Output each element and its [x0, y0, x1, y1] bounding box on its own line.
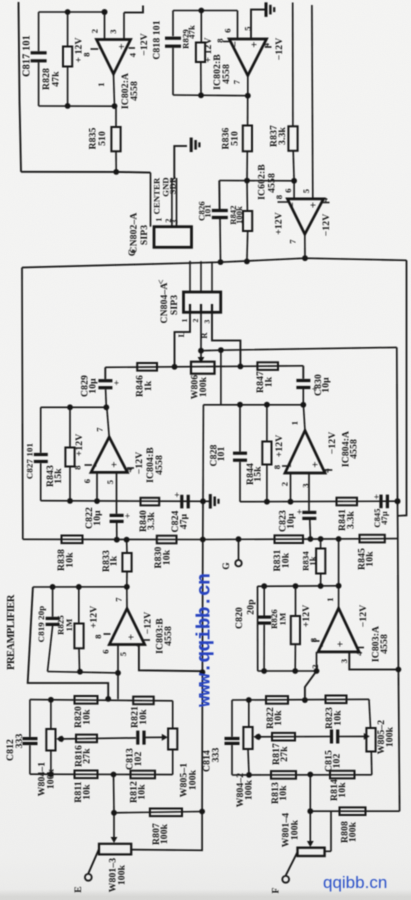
op-amp IC804:A	[285, 431, 325, 474]
node junction R/net-367	[238, 364, 244, 370]
wire CN802 pin2/pin3 leads to ground	[171, 178, 173, 227]
capacitor C815	[330, 730, 333, 744]
wire node net-172 (input to CN802 pin1)	[21, 171, 151, 174]
node junction wiper/net811	[307, 808, 313, 814]
node junction pin2/net-12	[102, 9, 108, 15]
potentiometer W801-3	[99, 844, 131, 855]
node junction R829/net-10	[198, 8, 204, 14]
svg-text:10μ: 10μ	[286, 513, 297, 529]
node junction pin5-fb/midrail	[200, 669, 206, 675]
svg-text:−12V: −12V	[327, 432, 338, 455]
potentiometer W801-3 wiper	[113, 813, 115, 838]
svg-text:1: 1	[96, 82, 106, 86]
wire IC803:B feedback top	[33, 586, 127, 588]
svg-text:+: +	[114, 378, 119, 388]
wire network top net right	[232, 698, 369, 701]
wire left rail of preamp box	[21, 268, 24, 540]
op-amp IC803:B	[109, 609, 144, 645]
resistor R838	[62, 536, 83, 544]
node junction midrail/net539	[200, 537, 206, 543]
svg-text:8: 8	[272, 465, 282, 469]
svg-text:10k: 10k	[273, 710, 284, 726]
svg-text:10k: 10k	[337, 782, 348, 798]
node junction W804-1/bottom	[48, 771, 54, 777]
resistor R823	[326, 696, 347, 704]
svg-text:1k: 1k	[308, 556, 318, 565]
wire net-812	[114, 812, 202, 813]
svg-text:10k: 10k	[137, 784, 148, 800]
svg-text:3: 3	[202, 319, 211, 323]
resistor R812	[131, 771, 156, 779]
svg-text:R: R	[200, 332, 209, 339]
svg-text:−: −	[91, 461, 103, 467]
svg-text:100k: 100k	[187, 769, 198, 790]
wire pin2 lead	[290, 473, 292, 502]
node junction R844/top	[264, 402, 270, 408]
svg-text:G: G	[222, 562, 232, 570]
svg-text:+: +	[109, 461, 121, 467]
svg-text:4: 4	[261, 42, 271, 47]
node junction C823/net539	[308, 536, 314, 542]
svg-text:510: 510	[97, 131, 108, 146]
potentiometer W805-2	[369, 699, 371, 728]
capacitor C817	[38, 12, 40, 51]
node junction pin2/bottom	[288, 499, 294, 505]
svg-text:C820: C820	[234, 607, 245, 629]
node junction boxdrop/top	[105, 696, 111, 702]
wire IC802:B output	[247, 76, 249, 96]
capacitor C845 (47u)	[379, 495, 382, 509]
resistor R840	[141, 498, 160, 506]
svg-text:7: 7	[232, 79, 242, 84]
node junction output/net-95	[245, 93, 251, 99]
svg-text:6: 6	[101, 649, 111, 653]
resistor R828	[67, 12, 69, 47]
svg-text:−12V: −12V	[321, 214, 332, 237]
wire pin6 lead IC602:B	[293, 181, 295, 199]
wire C815 to W805-2	[338, 735, 365, 737]
svg-text:C817 101: C817 101	[22, 35, 33, 77]
svg-text:3.3k: 3.3k	[346, 511, 357, 529]
node junction wiper/net-350	[198, 348, 204, 354]
node junction out803A/net539	[336, 536, 342, 542]
op-amp IC803:A	[318, 608, 359, 652]
wire IC804:A output	[303, 405, 305, 431]
resistor R847	[257, 362, 278, 370]
node junction W804-1/top	[48, 697, 54, 703]
wire IC804:B output	[107, 407, 109, 437]
pin 4 stub IC802:B	[265, 46, 272, 48]
svg-text:+12V: +12V	[274, 212, 285, 235]
node junction branch/G-net	[218, 347, 224, 353]
ground (CN802 GND)	[190, 138, 193, 153]
svg-text:5: 5	[118, 652, 128, 656]
potentiometer W804-1	[50, 700, 52, 729]
node junction wiper/net812	[111, 810, 117, 816]
wire mid net	[61, 738, 136, 739]
potentiometer W801-4	[298, 848, 325, 856]
svg-text:−: −	[94, 43, 106, 49]
svg-text:4558: 4558	[349, 439, 360, 459]
wire CN804 L lead	[175, 312, 191, 367]
pin 8 stub IC802:B	[223, 41, 231, 43]
svg-text:+12V: +12V	[89, 606, 100, 629]
svg-text:10k: 10k	[81, 784, 92, 800]
svg-text:−: −	[230, 41, 242, 47]
svg-text:1k: 1k	[143, 380, 154, 391]
wire pin3 lead with stub 3'	[123, 13, 125, 40]
svg-text:F: F	[272, 887, 282, 893]
svg-text:47k: 47k	[187, 25, 197, 39]
wire pin3 lead through C823	[308, 473, 310, 511]
wire net-12 top (IC802:A -input)	[39, 11, 106, 13]
svg-text:4558: 4558	[129, 81, 140, 101]
resistor R825	[78, 587, 80, 624]
svg-text:4558: 4558	[379, 634, 390, 654]
node junction C822/net539	[114, 537, 120, 543]
svg-text:101: 101	[203, 204, 213, 217]
svg-text:1: 1	[180, 318, 189, 322]
node junction C819/top	[50, 584, 56, 590]
wire IC804:A feedback top	[203, 404, 305, 406]
resistor R807	[150, 809, 182, 817]
wire IC802:A output	[114, 74, 115, 106]
svg-text:2: 2	[280, 482, 290, 486]
svg-text:10k: 10k	[161, 549, 172, 565]
pin 4 stub IC804:A	[325, 469, 332, 471]
node junction out/feedback-top	[336, 583, 342, 589]
svg-text:7: 7	[114, 597, 124, 602]
svg-text:+: +	[125, 511, 130, 521]
ground (mid)	[203, 500, 210, 502]
svg-text:C818 101: C818 101	[152, 20, 163, 59]
wire to E terminal	[88, 849, 99, 874]
svg-text:10μ: 10μ	[87, 378, 98, 394]
potentiometer W801-4 wiper	[309, 811, 311, 841]
ground (IC802:B +input)	[265, 2, 268, 17]
wire net-10 (IC802:B -input)	[173, 10, 238, 12]
wire G long net	[201, 347, 397, 350]
svg-text:5: 5	[105, 480, 115, 484]
svg-text:1: 1	[155, 217, 164, 221]
wire pin5 lead to mid rail	[139, 645, 203, 672]
svg-text:−12V: −12V	[358, 605, 369, 628]
svg-text:−12V: −12V	[139, 33, 150, 56]
node junction W804-2/bottom	[246, 772, 252, 778]
svg-text:102: 102	[332, 754, 343, 769]
svg-text:C827 101: C827 101	[25, 443, 35, 479]
capacitor C830 (10u)	[302, 366, 304, 379]
svg-text:SIP3: SIP3	[169, 295, 180, 315]
svg-text:4558: 4558	[163, 626, 174, 646]
svg-text:8: 8	[215, 38, 225, 42]
svg-text:4: 4	[321, 468, 331, 473]
wire pot right end up	[330, 811, 332, 851]
node junction C820/top	[261, 583, 267, 589]
wire diagonal to network junction	[305, 671, 317, 700]
node junction out/top	[300, 402, 306, 408]
pin 4 stub IC602:B	[322, 202, 329, 204]
node junction R843/top	[67, 404, 73, 410]
svg-text:100k: 100k	[198, 376, 209, 397]
svg-text:1: 1	[290, 421, 300, 425]
capacitor C819	[52, 587, 54, 617]
wire -12V rail right	[311, 5, 314, 199]
op-amp IC802:A	[97, 40, 131, 75]
wire CN804 pin1 to bus	[189, 261, 191, 292]
capacitor C828	[239, 405, 241, 452]
wire IC803:A feedback bottom	[258, 670, 317, 672]
potentiometer W804-2	[248, 700, 250, 727]
pin 4 stub IC803:B	[144, 639, 151, 641]
svg-text:4: 4	[128, 52, 138, 57]
svg-text:3: 3	[108, 29, 118, 33]
wire branch to IC804:A feedback	[220, 350, 222, 405]
node junction R836-R842/net-180	[244, 178, 250, 184]
node junction R829/net-95	[198, 92, 204, 98]
node junction W804-2/top	[246, 697, 252, 703]
node junction R828/net-106	[65, 103, 71, 109]
svg-text:15k: 15k	[53, 468, 64, 484]
resistor R820	[75, 696, 98, 704]
svg-text:10k: 10k	[332, 710, 343, 726]
svg-text:10k: 10k	[64, 552, 75, 568]
svg-text:100k: 100k	[347, 821, 358, 842]
capacitor C813	[136, 731, 139, 745]
wire net-106 (IC802:A output node)	[39, 105, 116, 107]
resistor R836	[247, 96, 249, 126]
svg-text:333: 333	[14, 734, 25, 749]
op-amp IC804:B	[91, 437, 127, 472]
wire network top net	[30, 700, 173, 701]
resistor R845	[360, 535, 385, 543]
wire IC804:B feedback top	[41, 406, 108, 408]
svg-text:4: 4	[354, 651, 364, 656]
svg-text:102: 102	[133, 752, 144, 767]
pin 4 stub IC802:A	[129, 47, 135, 49]
pin 4 stub IC804:B	[127, 467, 134, 469]
wire pin6 lead IC802:B	[237, 11, 239, 40]
wire net-95	[173, 94, 248, 97]
wire pin5 lead to ground	[251, 10, 265, 39]
node junction C828/top	[237, 402, 243, 408]
wire IC803:A feedback top	[258, 585, 339, 588]
node junction Gterm/net539	[236, 536, 242, 542]
resistor R814	[330, 771, 355, 779]
wire pin3 lead to right rail	[349, 652, 398, 670]
node junction R826/bottom	[292, 668, 298, 674]
svg-text:+: +	[249, 41, 261, 47]
wire gnd drop from feedback-top	[202, 405, 204, 502]
node junction R825/top	[76, 584, 82, 590]
capacitor C818	[172, 11, 174, 37]
capacitor C824 (47u)	[180, 495, 183, 509]
svg-text:10k: 10k	[365, 551, 376, 567]
wire pot right lead	[325, 850, 331, 852]
svg-text:1M: 1M	[64, 619, 74, 632]
svg-text:C819 20p: C819 20p	[36, 606, 46, 643]
svg-text:+12V: +12V	[274, 435, 285, 458]
svg-text:3.3k: 3.3k	[146, 512, 157, 530]
wire pin5 lead through C822	[116, 472, 118, 513]
wire CN804 pin3 to bus	[211, 262, 213, 293]
svg-text:1: 1	[325, 597, 335, 601]
resistor R822	[266, 696, 288, 704]
node junction C829-out/top	[103, 404, 109, 410]
resistor R835	[115, 106, 117, 127]
svg-text:+: +	[308, 202, 320, 208]
node junction R835/net-172	[113, 169, 119, 175]
svg-text:4: 4	[132, 642, 142, 647]
wire mid net right	[258, 736, 330, 738]
connector CN804-A SIP3	[184, 292, 221, 312]
svg-text:100k: 100k	[244, 779, 255, 800]
svg-text:+: +	[126, 634, 138, 640]
svg-text:E: E	[74, 886, 84, 893]
svg-text:10k: 10k	[81, 709, 92, 725]
svg-text:100k: 100k	[289, 819, 300, 840]
wire IC602:B output	[304, 234, 306, 258]
svg-text:6: 6	[283, 188, 293, 192]
svg-text:−12V: −12V	[142, 612, 153, 635]
potentiometer W806	[191, 362, 215, 374]
node junction C826/bus	[218, 259, 224, 265]
svg-text:10k: 10k	[280, 552, 291, 568]
svg-text:3: 3	[171, 219, 180, 223]
svg-text:100k: 100k	[235, 206, 244, 224]
svg-text:5: 5	[301, 189, 311, 193]
node junction pin6/bottom	[94, 498, 100, 504]
node junction pin2/bottom	[314, 668, 320, 674]
svg-text:L: L	[177, 331, 186, 337]
wire net-811	[310, 810, 399, 812]
svg-text:7: 7	[95, 427, 105, 432]
terminal F	[282, 876, 289, 883]
wire drop to W801-3 net	[113, 775, 116, 813]
svg-text:7: 7	[288, 239, 298, 244]
wire net-539	[23, 538, 398, 541]
capacitor C827	[40, 407, 42, 453]
svg-text:6: 6	[82, 479, 92, 483]
W804-1 wiper	[58, 738, 62, 740]
resistor R834 (drop)	[320, 539, 322, 549]
resistor R821	[133, 697, 154, 705]
op-amp IC602:B	[287, 199, 323, 234]
wire output to vertex	[126, 587, 128, 609]
node junction IC602 out/bus	[302, 255, 308, 261]
node junction R842/bus	[244, 259, 250, 265]
svg-text:8: 8	[82, 52, 92, 56]
svg-text:+: +	[297, 507, 302, 517]
resistor R830	[157, 536, 177, 544]
svg-text:2: 2	[191, 318, 200, 322]
svg-text:SIP3: SIP3	[139, 225, 150, 245]
wire box left edge with C812	[29, 700, 31, 737]
wire pin6 lead	[117, 645, 119, 700]
svg-text:47μ: 47μ	[179, 513, 190, 529]
W804-2 wiper	[255, 736, 259, 738]
node junction drop/bottom	[307, 772, 313, 778]
svg-text:510: 510	[229, 131, 240, 146]
node junction L/net-367	[172, 364, 178, 370]
node junction out803B/net539	[124, 537, 130, 543]
capacitor C829 (10u)	[104, 367, 106, 379]
svg-text:4558: 4558	[154, 455, 165, 475]
svg-text:+12V: +12V	[301, 605, 312, 628]
resistor R813	[271, 771, 296, 779]
svg-text:4: 4	[124, 467, 134, 472]
svg-text:−: −	[317, 641, 329, 647]
resistor R831	[275, 535, 304, 543]
node junction R833/feedback-top	[124, 584, 130, 590]
resistor R844	[266, 405, 268, 442]
node junction R825/bottom	[77, 669, 83, 675]
wire IC803:B feedback bottom	[48, 672, 119, 673]
node junction R834/net539	[318, 536, 324, 542]
resistor R811	[75, 771, 98, 779]
wire C813 to W805-1	[144, 736, 163, 738]
svg-text:+: +	[335, 641, 347, 647]
svg-text:27k: 27k	[82, 748, 93, 764]
svg-text:PREAMPLIFIER: PREAMPLIFIER	[6, 594, 17, 670]
svg-text:www.qqibb.cn: www.qqibb.cn	[194, 574, 216, 707]
connector pin ticks	[189, 304, 191, 311]
resistor R829	[200, 11, 202, 43]
terminal G	[238, 539, 240, 560]
resistor R837 with rail from top	[292, 3, 294, 127]
pin 4 stub IC803:A	[358, 647, 365, 649]
node junction pin3/rail	[396, 667, 402, 673]
wire CN804 pin2 to bus	[200, 261, 202, 292]
wire right rail	[397, 347, 400, 811]
svg-text:10k: 10k	[278, 785, 289, 801]
svg-text:5: 5	[243, 26, 253, 30]
svg-text:4: 4	[320, 197, 330, 202]
resistor R816	[76, 735, 97, 743]
svg-text:SDR: SDR	[167, 176, 177, 194]
svg-text:−12V: −12V	[134, 452, 145, 475]
svg-text:+ 12V: + 12V	[74, 37, 85, 62]
wire IC804:A bottom net	[240, 500, 398, 503]
wire main bus	[22, 258, 407, 267]
wire drop to W801-4 net	[309, 775, 311, 812]
svg-text:100k: 100k	[117, 864, 128, 885]
svg-text:1k: 1k	[263, 376, 274, 387]
node junction C845/rail	[395, 498, 401, 504]
svg-text:−: −	[287, 202, 299, 208]
svg-text:6: 6	[223, 28, 233, 32]
pin 8 stub IC803:B	[104, 633, 111, 635]
svg-text:10μ: 10μ	[321, 377, 332, 393]
svg-text:8: 8	[73, 465, 83, 469]
svg-text:qqibb.cn: qqibb.cn	[323, 873, 387, 892]
node junction C820/bottom	[261, 668, 267, 674]
wire IC803:A output vertical	[338, 539, 340, 608]
node junction R844/bottom	[264, 499, 270, 505]
svg-text:4558: 4558	[221, 64, 232, 84]
wire net-180 (IC602:B -input)	[219, 180, 294, 182]
resistor R841	[337, 498, 358, 506]
node junction R843/bottom	[67, 498, 73, 504]
resistor R843	[69, 407, 71, 447]
node junction drop/bottom	[111, 772, 117, 778]
node junction gnd mid	[200, 498, 206, 504]
wire pin6 lead	[96, 472, 98, 501]
svg-text:3: 3	[339, 659, 349, 663]
svg-text:20p: 20p	[245, 599, 256, 614]
resistor R808	[340, 807, 366, 815]
pin 8 stub IC602:B	[278, 201, 289, 203]
